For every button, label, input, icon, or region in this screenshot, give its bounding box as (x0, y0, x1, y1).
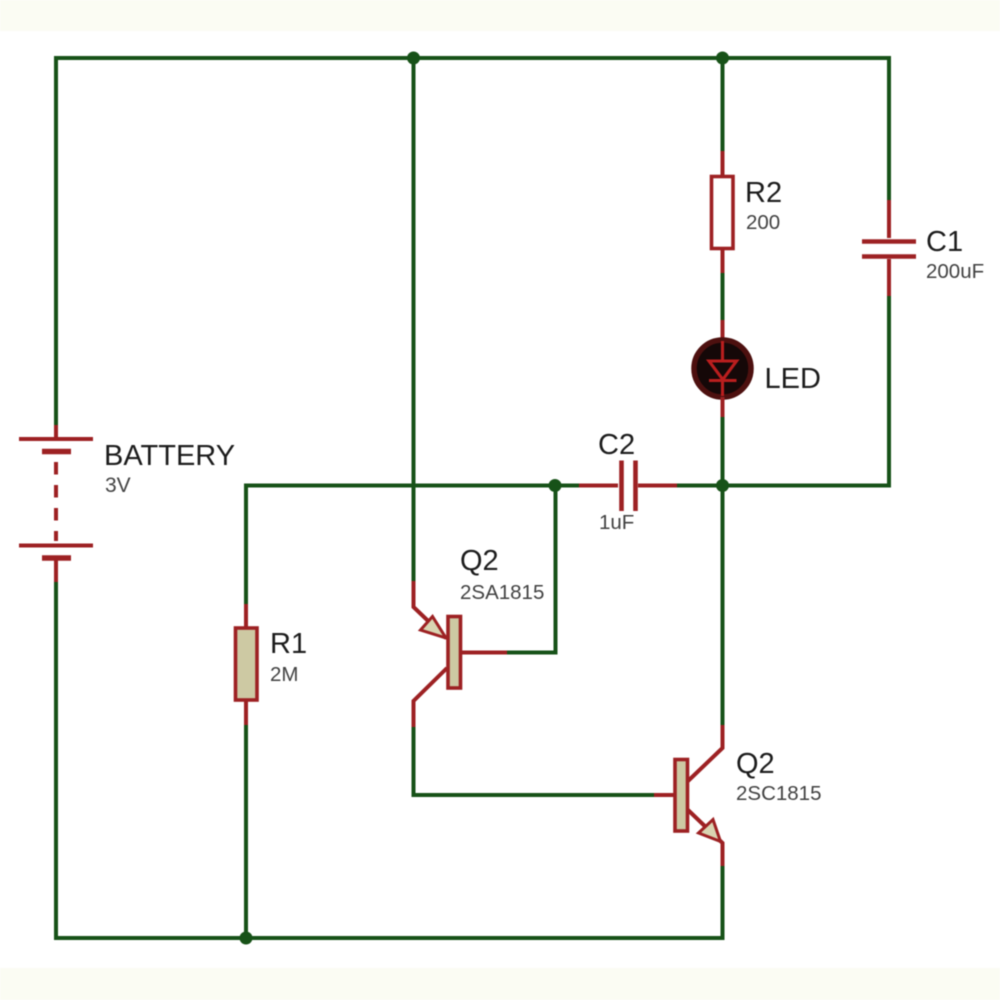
LED D1 (694, 320, 751, 417)
svg-text:Q2: Q2 (736, 748, 775, 780)
emitter lead (414, 581, 447, 638)
emitter lead (688, 810, 723, 866)
wire right C1 branch (887, 58, 891, 200)
svg-text:C2: C2 (598, 429, 635, 461)
svg-text:C1: C1 (926, 226, 963, 258)
base bar (448, 617, 461, 689)
collector lead (414, 668, 448, 727)
base lead (654, 793, 675, 797)
resistor R2 (712, 151, 734, 273)
wire Q1 emitter vertical (412, 58, 416, 581)
svg-text:2M: 2M (270, 663, 298, 686)
resistor R1 (236, 604, 258, 725)
svg-text:R2: R2 (745, 177, 782, 209)
wire right C1 to mid node (723, 296, 890, 486)
emitter arrow (421, 617, 447, 639)
wire NPN emitter to bottom rail (721, 866, 725, 938)
node junction top B (716, 52, 729, 65)
node junction top A (407, 52, 420, 65)
base lead (461, 651, 507, 655)
svg-text:1uF: 1uF (599, 511, 634, 534)
svg-text:2SA1815: 2SA1815 (460, 581, 544, 604)
svg-text:200: 200 (746, 211, 780, 234)
node junction mid D (716, 479, 729, 492)
wire mid node to NPN collector (721, 486, 725, 726)
svg-text:2SC1815: 2SC1815 (736, 782, 821, 805)
wire PNP collector to NPN base (414, 727, 655, 795)
wire R1 horizontal (246, 484, 555, 488)
svg-text:BATTERY: BATTERY (104, 440, 235, 472)
svg-text:200uF: 200uF (926, 260, 984, 283)
base bar (675, 760, 688, 832)
node junction mid C (549, 479, 562, 492)
wire bottom rail (56, 582, 723, 938)
wire node to C2 left (555, 484, 579, 488)
wire R2 top (721, 58, 725, 151)
wire R1 bottom vertical (244, 725, 248, 938)
wire top rail (56, 58, 889, 425)
emitter arrow (699, 820, 721, 842)
svg-text:LED: LED (765, 363, 821, 395)
transistor Q1 PNP 2SA1815 (414, 581, 508, 727)
wire R2 to LED (721, 273, 725, 320)
wire LED to mid node (721, 417, 725, 486)
collector lead (688, 725, 723, 781)
svg-text:Q2: Q2 (460, 545, 499, 577)
battery BAT1 (19, 425, 93, 582)
wire R1 top vertical (244, 486, 248, 605)
svg-text:3V: 3V (105, 474, 131, 497)
wire PNP base to C2 node (507, 486, 556, 653)
node junction bottom E (240, 932, 253, 945)
svg-text:R1: R1 (270, 628, 307, 660)
capacitor C1 (862, 200, 916, 296)
wire C2 right to node (677, 484, 723, 488)
capacitor C2 (579, 461, 677, 512)
transistor Q2 NPN 2SC1815 (654, 725, 723, 866)
